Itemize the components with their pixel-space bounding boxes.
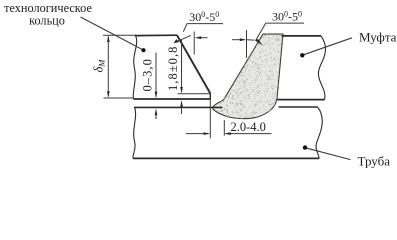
left angle leader — [183, 24, 187, 32]
right angle arrow at weld edge — [255, 39, 263, 45]
dim 0-3,0 lower line — [155, 110, 157, 119]
dim 1,8pm0,8 arrow up — [180, 100, 183, 107]
dim 1,8pm0,8 upper line — [181, 39, 183, 92]
ring left break line — [133, 36, 136, 99]
delta_M dimension line — [107, 37, 109, 97]
svg-text:0–3,0: 0–3,0 — [140, 58, 154, 91]
coupling right break line — [318, 36, 325, 100]
ring label leader dot — [141, 48, 145, 52]
dim 1,8pm0,8 arrow down — [180, 87, 183, 94]
dim 0-3,0 arrow up — [155, 109, 158, 116]
pipe left break line — [133, 107, 136, 158]
pipe top edge left — [134, 106, 223, 108]
delta_M top extension line — [103, 34, 136, 36]
svg-text:Муфта: Муфта — [359, 30, 397, 45]
ring bevel edge — [177, 35, 210, 93]
coupling label leader dot — [300, 53, 304, 57]
delta_M arrow up — [107, 35, 110, 42]
left angle dim shelf — [187, 23, 223, 25]
coupling top edge — [282, 35, 322, 37]
dim 2.0-4.0 right arrow and shelf — [226, 133, 272, 135]
delta_M bottom extension line — [104, 97, 135, 99]
dim 2.0-4.0 extension line at ring face — [209, 100, 211, 139]
right angle horizontal arrow — [232, 39, 244, 41]
right angle dim shelf — [266, 22, 304, 24]
left angle horizontal arrow — [197, 37, 208, 39]
svg-text:1,8±0,8: 1,8±0,8 — [166, 46, 180, 91]
svg-text:δM: δM — [92, 59, 107, 73]
dim 2.0-4.0 extension line at pipe end — [223, 120, 225, 136]
dim 0-3,0 arrow down — [155, 92, 158, 99]
pipe right break line — [316, 107, 322, 158]
right angle leader — [256, 23, 266, 40]
pipe top edge right — [279, 106, 318, 108]
pipe label leader dot — [303, 145, 307, 149]
pipe label leader — [306, 148, 351, 160]
dim 1,8pm0,8 extension line — [178, 93, 211, 95]
dim 2.0-4.0 left arrow — [186, 133, 209, 135]
left angle arrow at bevel — [178, 35, 191, 41]
svg-text:кольцо: кольцо — [29, 14, 65, 28]
left angle vertical extension — [193, 32, 195, 55]
right angle vertical extension — [246, 30, 248, 58]
coupling bottom edge — [277, 99, 325, 101]
ring label leader — [81, 17, 144, 50]
ring root face — [209, 93, 211, 99]
ring top edge — [135, 34, 177, 36]
coupling label leader — [303, 38, 352, 55]
right angle arc line — [247, 39, 255, 41]
svg-text:2.0-4.0: 2.0-4.0 — [231, 120, 266, 134]
weld deposit bead (stippled) — [213, 34, 283, 119]
svg-text:Труба: Труба — [358, 154, 391, 169]
pipe bottom edge — [133, 157, 319, 159]
dim 1,8pm0,8 lower line — [181, 102, 183, 114]
dim 0-3,0 upper line — [155, 53, 157, 97]
svg-text:300-50: 300-50 — [272, 10, 302, 24]
ring bottom edge — [134, 98, 211, 100]
delta_M arrow down — [107, 91, 110, 98]
svg-text:300-50: 300-50 — [189, 10, 219, 24]
